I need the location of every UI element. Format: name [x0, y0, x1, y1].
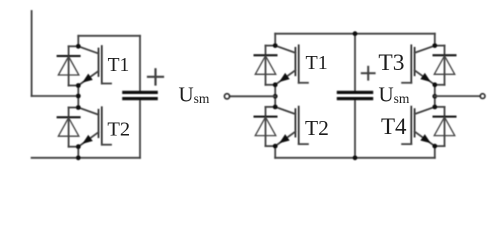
svg-text:T1: T1: [108, 55, 130, 76]
svg-text:T2: T2: [107, 118, 130, 140]
svg-text:T3: T3: [378, 50, 404, 76]
svg-text:T1: T1: [306, 52, 328, 74]
svg-text:T4: T4: [381, 114, 407, 139]
svg-text:T2: T2: [305, 116, 329, 140]
